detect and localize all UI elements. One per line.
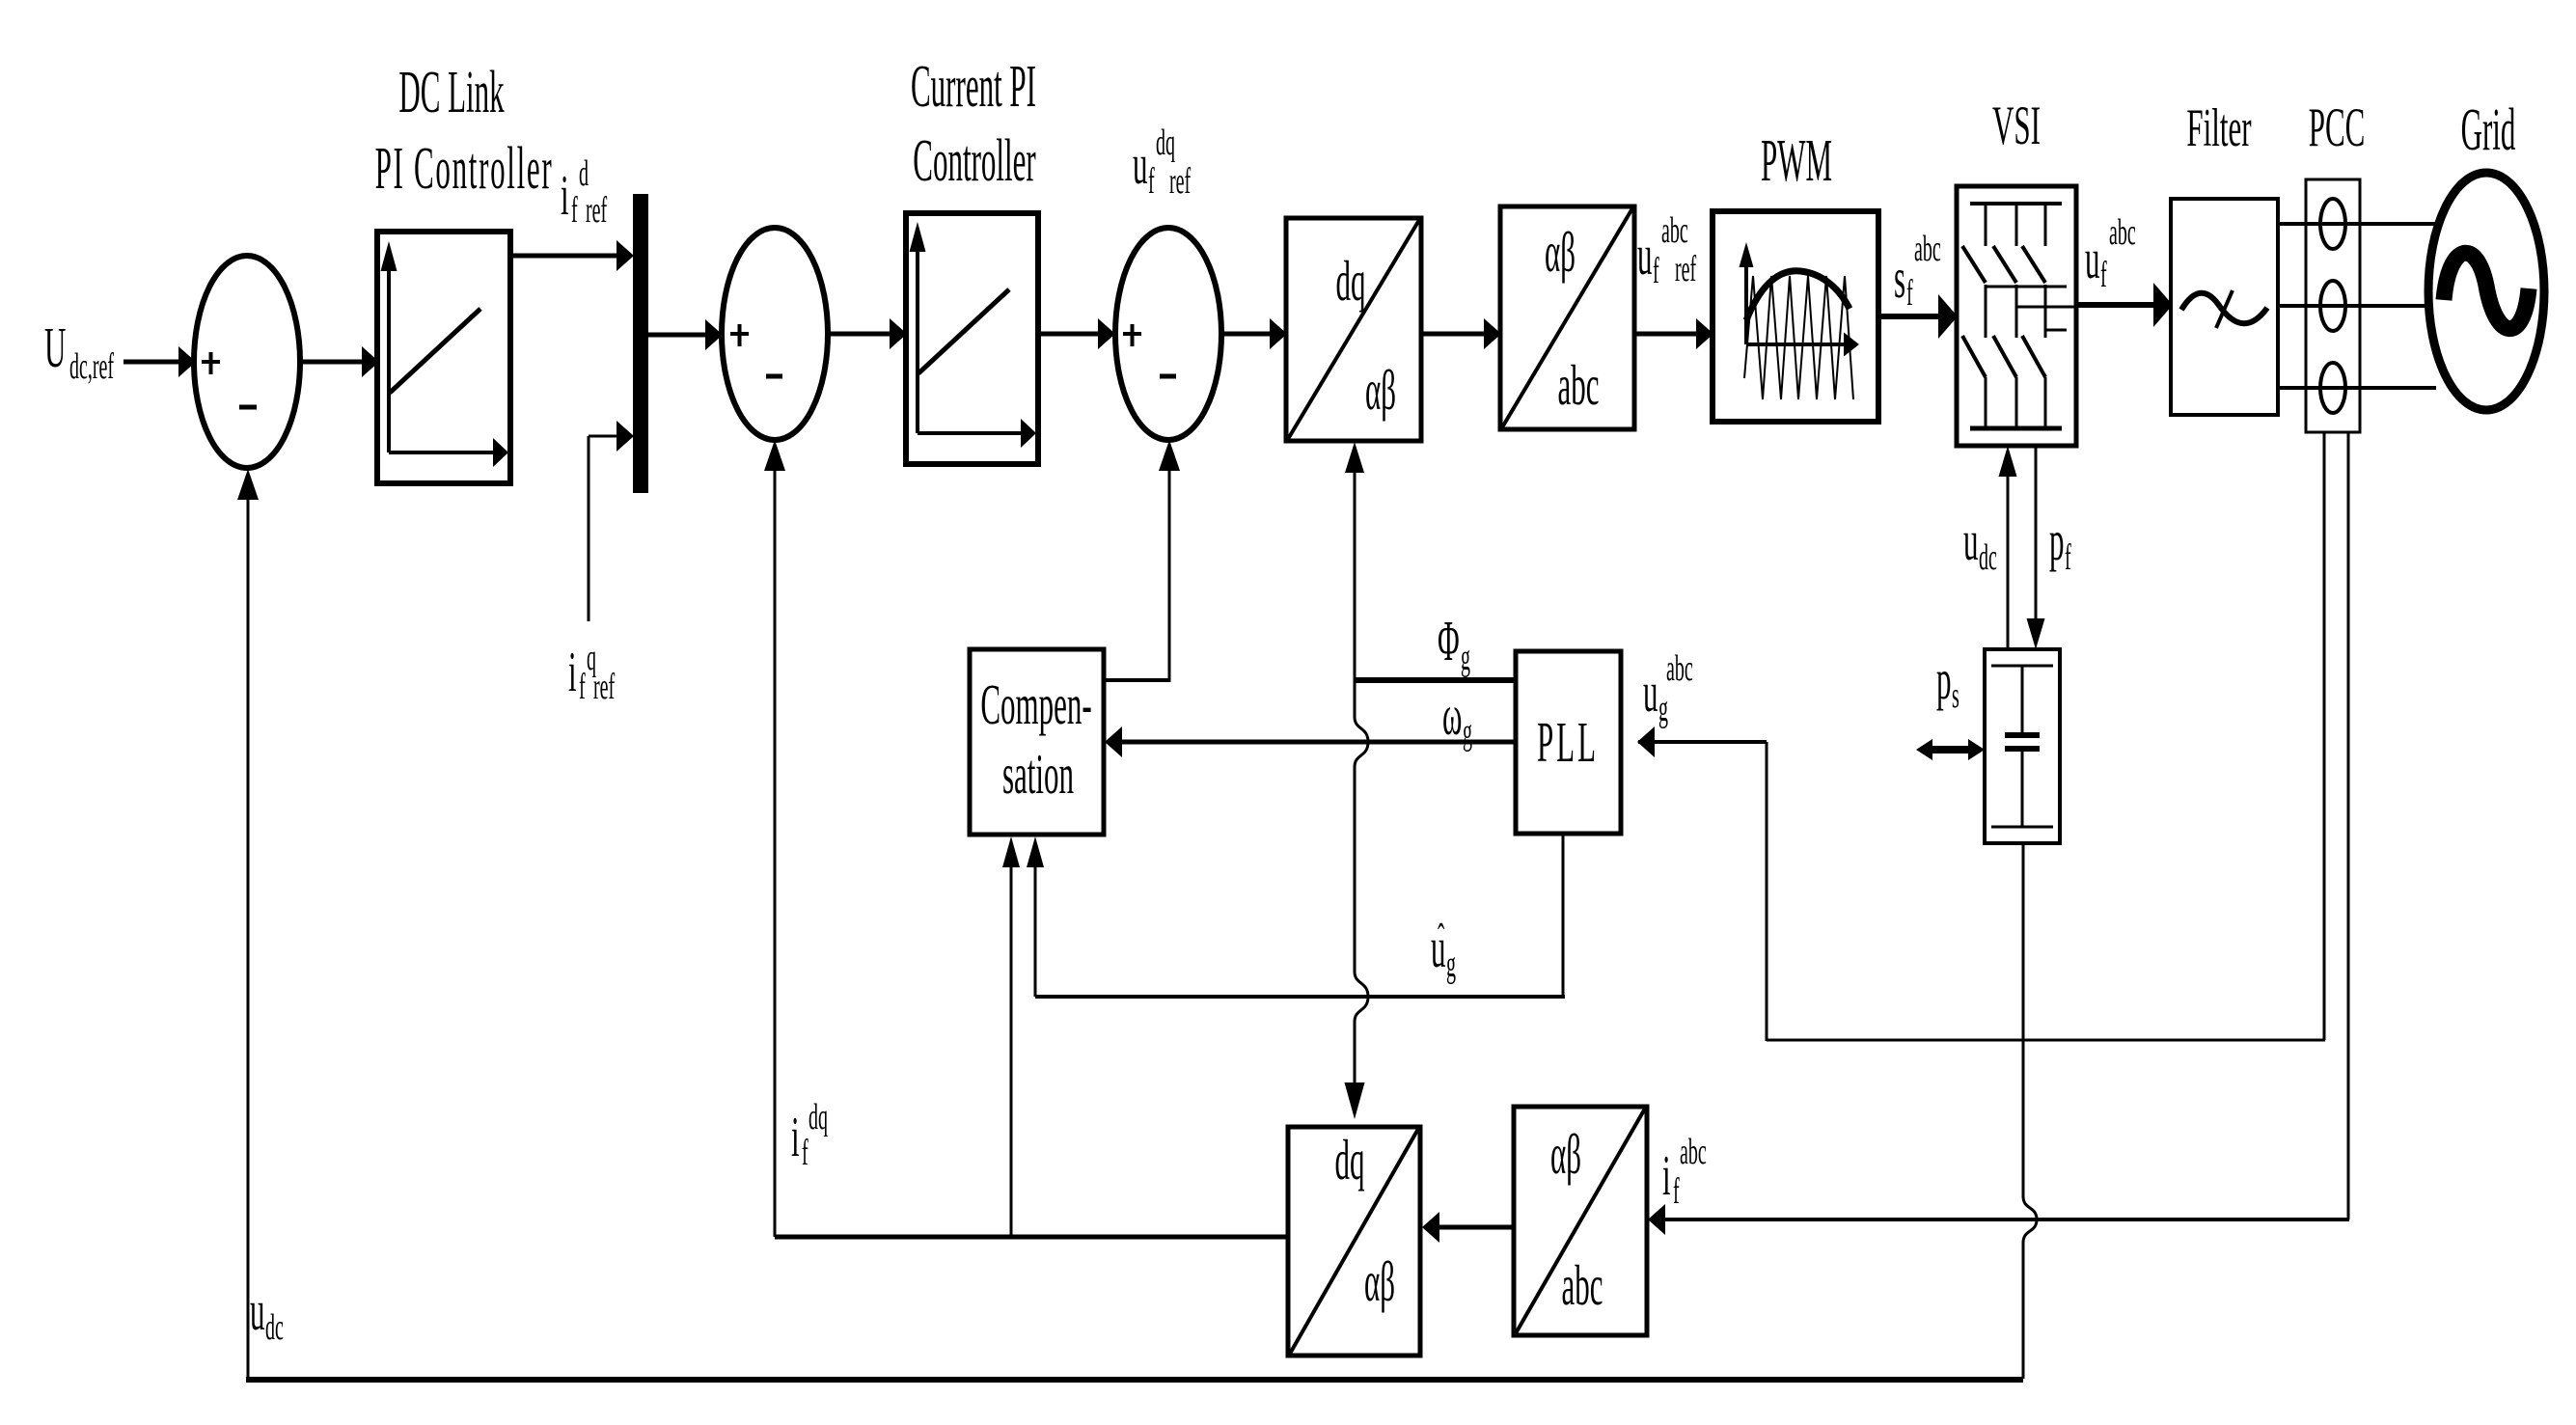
S3 minus sign xyxy=(1160,374,1176,379)
svg-text:u: u xyxy=(1963,510,1978,573)
DC Link PI controller block U1 (box) xyxy=(377,232,510,483)
ps bidirectional arrow xyxy=(1916,739,1985,760)
VSI phase b output line xyxy=(2016,306,2076,309)
T2 label abc xyxy=(1557,355,1599,418)
mux bar M1 xyxy=(633,194,648,493)
svg-text:s: s xyxy=(1894,248,1905,311)
svg-text:ref: ref xyxy=(1169,160,1192,202)
svg-text:sation: sation xyxy=(1002,744,1074,807)
svg-text:Filter: Filter xyxy=(2186,98,2251,158)
VSI lower switch Q4 blade xyxy=(1962,336,1986,377)
capacitor C1 top lead xyxy=(2021,666,2024,732)
wire ug abc horizontal run xyxy=(1767,1039,2325,1042)
U1 graph x-axis xyxy=(389,438,508,467)
node Udc,ref input label xyxy=(44,317,115,387)
VSI upper switch Q3 blade xyxy=(2022,246,2045,283)
VSI leg2 bottom stub xyxy=(2015,377,2018,428)
T1 diagonal xyxy=(1288,220,1419,439)
label Compensation xyxy=(980,674,1091,807)
svg-text:p: p xyxy=(1936,649,1951,712)
VSI phase c output line xyxy=(2045,329,2067,332)
svg-text:dc,ref: dc,ref xyxy=(69,345,115,387)
wire T2 to PWM block xyxy=(1634,318,1713,349)
wire ug-hat horizontal run xyxy=(1035,995,1565,999)
PWM graph x-axis xyxy=(1746,333,1859,357)
svg-text:ˆ: ˆ xyxy=(1438,917,1444,961)
wire S3 to dq-ab transform T1 xyxy=(1221,318,1287,349)
svg-text:u: u xyxy=(2085,229,2099,291)
svg-text:i: i xyxy=(1662,1145,1671,1208)
svg-text:αβ: αβ xyxy=(1550,1124,1581,1187)
wire ug-hat from PLL down xyxy=(1562,834,1565,997)
Grid sine symbol xyxy=(2444,253,2529,328)
svg-text:VSI: VSI xyxy=(1992,95,2041,155)
label ug-hat xyxy=(1431,917,1456,985)
svg-text:dq: dq xyxy=(1335,1130,1365,1192)
svg-text:i: i xyxy=(791,1107,800,1169)
PCC terminal a xyxy=(2320,199,2345,249)
summing junction S3 xyxy=(1115,228,1221,440)
wire phi-g jump over omega-g xyxy=(1355,717,1368,767)
svg-text:ref: ref xyxy=(586,189,608,231)
wire U2 to summing junction S3 xyxy=(1038,318,1115,349)
wire if dq branch up to Compensation xyxy=(1002,836,1020,1237)
label Current PI Controller xyxy=(911,52,1036,194)
svg-text:ω: ω xyxy=(1442,685,1462,748)
wire Compensation output to S3 xyxy=(1104,440,1180,682)
wire ug abc sense from PCC down xyxy=(2323,432,2326,1040)
VSI leg3 mid stub xyxy=(2044,285,2047,338)
svg-text:abc: abc xyxy=(1561,1255,1603,1318)
svg-text:Φ: Φ xyxy=(1438,611,1460,673)
wire udc jump over if abc line xyxy=(2023,1196,2037,1243)
svg-text:g: g xyxy=(1446,944,1456,985)
svg-text:dq: dq xyxy=(1156,122,1175,163)
summing junction S1 xyxy=(194,256,300,468)
label Grid xyxy=(2461,96,2516,163)
S3 plus sign xyxy=(1123,324,1141,346)
svg-text:abc: abc xyxy=(1666,647,1693,689)
PWM block (box) xyxy=(1713,211,1878,422)
capacitor C1 top bar xyxy=(1991,665,2053,668)
svg-text:i: i xyxy=(568,642,577,704)
svg-text:Current PI: Current PI xyxy=(911,52,1036,120)
label if d ref xyxy=(561,152,608,231)
label PCC xyxy=(2309,96,2366,157)
T2 diagonal xyxy=(1502,208,1632,427)
VSI phase a output line xyxy=(1986,286,2067,288)
svg-text:αβ: αβ xyxy=(1545,222,1576,285)
Current PI controller block U2 (box) xyxy=(906,213,1038,464)
DC link capacitor block (box) xyxy=(1985,649,2060,843)
svg-text:f: f xyxy=(1673,1170,1680,1212)
T3 diagonal xyxy=(1290,1129,1418,1354)
svg-text:f: f xyxy=(1906,272,1913,314)
VSI upper switch Q1 blade xyxy=(1962,246,1986,283)
capacitor C1 lower plate xyxy=(2005,746,2040,752)
capacitor C1 bottom lead xyxy=(2021,752,2024,827)
T4 label alpha-beta xyxy=(1550,1124,1581,1187)
S1 minus sign xyxy=(239,405,257,410)
svg-text:u: u xyxy=(1643,662,1658,725)
svg-text:ref: ref xyxy=(1675,248,1697,289)
wire Udc,ref to summing junction S1 xyxy=(123,346,196,377)
wire S2 to current PI controller xyxy=(828,318,907,349)
svg-text:dc: dc xyxy=(1979,536,1997,578)
label uf abc ref xyxy=(1637,209,1697,291)
wire phi-g down segment 2 xyxy=(1354,766,1357,973)
wire pf from VSI to DC link xyxy=(2027,446,2045,649)
VSI leg1 top stub xyxy=(1985,204,1987,246)
T3 label alpha-beta xyxy=(1364,1251,1395,1314)
VSI lower switch Q6 blade xyxy=(2022,336,2045,377)
capacitor C1 upper plate xyxy=(2005,732,2040,738)
wire udc from DC link to VSI xyxy=(1999,446,2017,649)
label VSI xyxy=(1992,95,2041,155)
alpha-beta to abc transform block T2 (box) xyxy=(1500,206,1634,429)
svg-text:f: f xyxy=(2065,536,2071,578)
wire udc from capacitor down (upper part) xyxy=(2022,843,2025,1197)
label omega g xyxy=(1442,685,1472,753)
wire phi-g jump over ug-hat xyxy=(1355,972,1368,1022)
svg-text:u: u xyxy=(1637,225,1652,288)
svg-text:Grid: Grid xyxy=(2461,96,2516,163)
VSI top dc bus xyxy=(1970,202,2062,206)
bottom udc feedback rail xyxy=(246,1377,2023,1383)
svg-text:g: g xyxy=(1658,688,1668,729)
Grid source G1 (circle) xyxy=(2428,173,2544,410)
T1 label alpha-beta xyxy=(1365,360,1396,423)
svg-text:PWM: PWM xyxy=(1761,126,1832,194)
wire udc from jump to bottom rail xyxy=(2022,1242,2025,1379)
VSI leg2 mid stub xyxy=(2015,285,2018,338)
wire phi-g down segment 1 xyxy=(1354,680,1357,718)
label ps xyxy=(1936,649,1959,716)
wire VSI to Filter (uf abc) xyxy=(2076,283,2173,327)
svg-text:abc: abc xyxy=(1680,1131,1707,1172)
svg-text:g: g xyxy=(1463,711,1472,753)
svg-text:f: f xyxy=(2100,254,2107,295)
svg-text:f: f xyxy=(1148,160,1155,202)
svg-text:PCC: PCC xyxy=(2309,96,2366,157)
Compensation block (box) xyxy=(970,649,1104,835)
phase line c Filter-PCC-Grid xyxy=(2278,386,2436,390)
svg-text:dq: dq xyxy=(808,1096,828,1137)
label Filter xyxy=(2186,98,2251,158)
svg-text:u: u xyxy=(250,1280,264,1343)
dq to alpha-beta transform block T3 (box) xyxy=(1288,1127,1420,1356)
svg-text:αβ: αβ xyxy=(1365,360,1396,423)
VSI upper switch Q2 blade xyxy=(1993,246,2016,283)
U1 graph y-axis xyxy=(381,241,397,452)
svg-text:αβ: αβ xyxy=(1364,1251,1395,1314)
PWM graph y-axis xyxy=(1740,242,1754,344)
capacitor C1 bottom bar xyxy=(1991,826,2053,829)
wire PWM to VSI xyxy=(1878,294,1958,339)
svg-text:d: d xyxy=(579,152,589,194)
svg-text:p: p xyxy=(2049,510,2064,573)
svg-text:f: f xyxy=(571,189,578,231)
svg-text:PI Controller: PI Controller xyxy=(375,134,554,202)
svg-text:i: i xyxy=(561,165,569,228)
VSI leg1 mid stub xyxy=(1985,285,1987,338)
svg-text:f: f xyxy=(802,1132,808,1173)
svg-text:abc: abc xyxy=(2109,211,2136,253)
VSI leg1 bottom stub xyxy=(1985,377,1987,428)
wire if dq from T3 to left xyxy=(775,1235,1288,1240)
PLL block (box) xyxy=(1516,651,1621,834)
wire phi-g up to T1 xyxy=(1345,442,1364,680)
svg-text:s: s xyxy=(1952,674,1959,716)
abc to alpha-beta transform block T4 (box) xyxy=(1514,1107,1647,1335)
Filter sine symbol xyxy=(2181,290,2267,328)
label ug abc xyxy=(1643,647,1693,729)
PWM sine reference curve xyxy=(1746,271,1850,320)
svg-text:DC Link: DC Link xyxy=(398,58,505,125)
svg-text:dq: dq xyxy=(1336,251,1366,314)
VSI block (box) xyxy=(1957,186,2076,446)
svg-text:g: g xyxy=(1461,637,1470,678)
VSI lower switch Q5 blade xyxy=(1993,336,2016,377)
svg-text:ref: ref xyxy=(593,666,616,707)
wire ug abc up to PLL xyxy=(1637,726,1767,1041)
T1 label dq xyxy=(1336,251,1366,314)
T4 diagonal xyxy=(1516,1109,1645,1333)
wire if abc horizontal run xyxy=(1648,1204,2349,1235)
wire S1 to DC-link PI controller xyxy=(300,346,379,377)
svg-text:abc: abc xyxy=(1557,355,1599,418)
T4 label abc xyxy=(1561,1255,1603,1318)
svg-text:dc: dc xyxy=(265,1306,284,1348)
U1 PI ramp curve xyxy=(390,309,480,393)
label sf abc xyxy=(1894,228,1941,314)
T3 label dq xyxy=(1335,1130,1365,1192)
wire phi-g PLL to vertical bus xyxy=(1355,677,1516,683)
wire if abc sense from PCC down xyxy=(2347,432,2350,1219)
wire if dq up to S2 xyxy=(764,440,785,1237)
Filter block (box) xyxy=(2171,199,2278,415)
label PLL xyxy=(1537,712,1599,775)
svg-text:abc: abc xyxy=(1661,209,1688,251)
phase line a Filter-PCC-Grid xyxy=(2278,222,2435,226)
label phi g xyxy=(1438,611,1470,678)
label udc (bottom rail) xyxy=(250,1280,284,1348)
svg-text:f: f xyxy=(1653,250,1659,291)
U2 graph y-axis xyxy=(910,222,926,433)
label PWM xyxy=(1761,126,1832,194)
VSI leg2 top stub xyxy=(2015,204,2018,246)
label uf dq ref xyxy=(1133,122,1192,202)
U2 graph x-axis xyxy=(918,419,1036,448)
phase line b Filter-PCC-Grid xyxy=(2278,304,2430,308)
label pf xyxy=(2049,510,2071,578)
VSI bottom dc bus xyxy=(1970,426,2062,431)
wire mux bar to summing junction S2 xyxy=(648,319,723,350)
S2 minus sign xyxy=(766,374,782,379)
PCC block (box) xyxy=(2306,179,2360,432)
U2 PI ramp curve xyxy=(918,289,1009,373)
label if q ref xyxy=(568,637,616,707)
summing junction S2 xyxy=(722,228,828,440)
wire ug-hat up to Compensation xyxy=(1027,836,1044,997)
wire phi-g down to T3 xyxy=(1345,1021,1365,1119)
VSI leg3 bottom stub xyxy=(2044,377,2047,428)
wire U1 output to mux bar xyxy=(510,240,634,271)
PCC terminal b xyxy=(2320,281,2345,331)
svg-text:f: f xyxy=(579,666,586,707)
S2 plus sign xyxy=(730,324,749,346)
svg-text:U: U xyxy=(44,317,66,380)
wire T4 to T3 xyxy=(1422,1212,1514,1243)
T2 label alpha-beta xyxy=(1545,222,1576,285)
label DC Link PI Controller xyxy=(375,58,554,202)
svg-text:PLL: PLL xyxy=(1537,712,1599,775)
label if dq xyxy=(791,1096,828,1173)
VSI leg3 top stub xyxy=(2044,204,2047,246)
wire T1 to ab-abc transform T2 xyxy=(1421,318,1501,349)
label if abc xyxy=(1662,1131,1707,1212)
label udc (VSI input) xyxy=(1963,510,1997,578)
svg-text:u: u xyxy=(1133,134,1147,197)
wire if q ref into mux bar xyxy=(589,421,634,621)
PCC terminal c xyxy=(2320,363,2345,413)
dq to alpha-beta transform block T1 (box) xyxy=(1286,218,1421,441)
PWM triangle carrier wave xyxy=(1744,276,1853,399)
wire udc rail up to S1 xyxy=(237,469,259,1380)
svg-text:Compen-: Compen- xyxy=(980,674,1091,737)
svg-text:abc: abc xyxy=(1914,228,1941,269)
label uf abc xyxy=(2085,211,2136,295)
svg-text:Controller: Controller xyxy=(913,126,1035,194)
S1 plus sign xyxy=(202,352,220,374)
wire omega-g PLL to Compensation xyxy=(1105,726,1516,757)
